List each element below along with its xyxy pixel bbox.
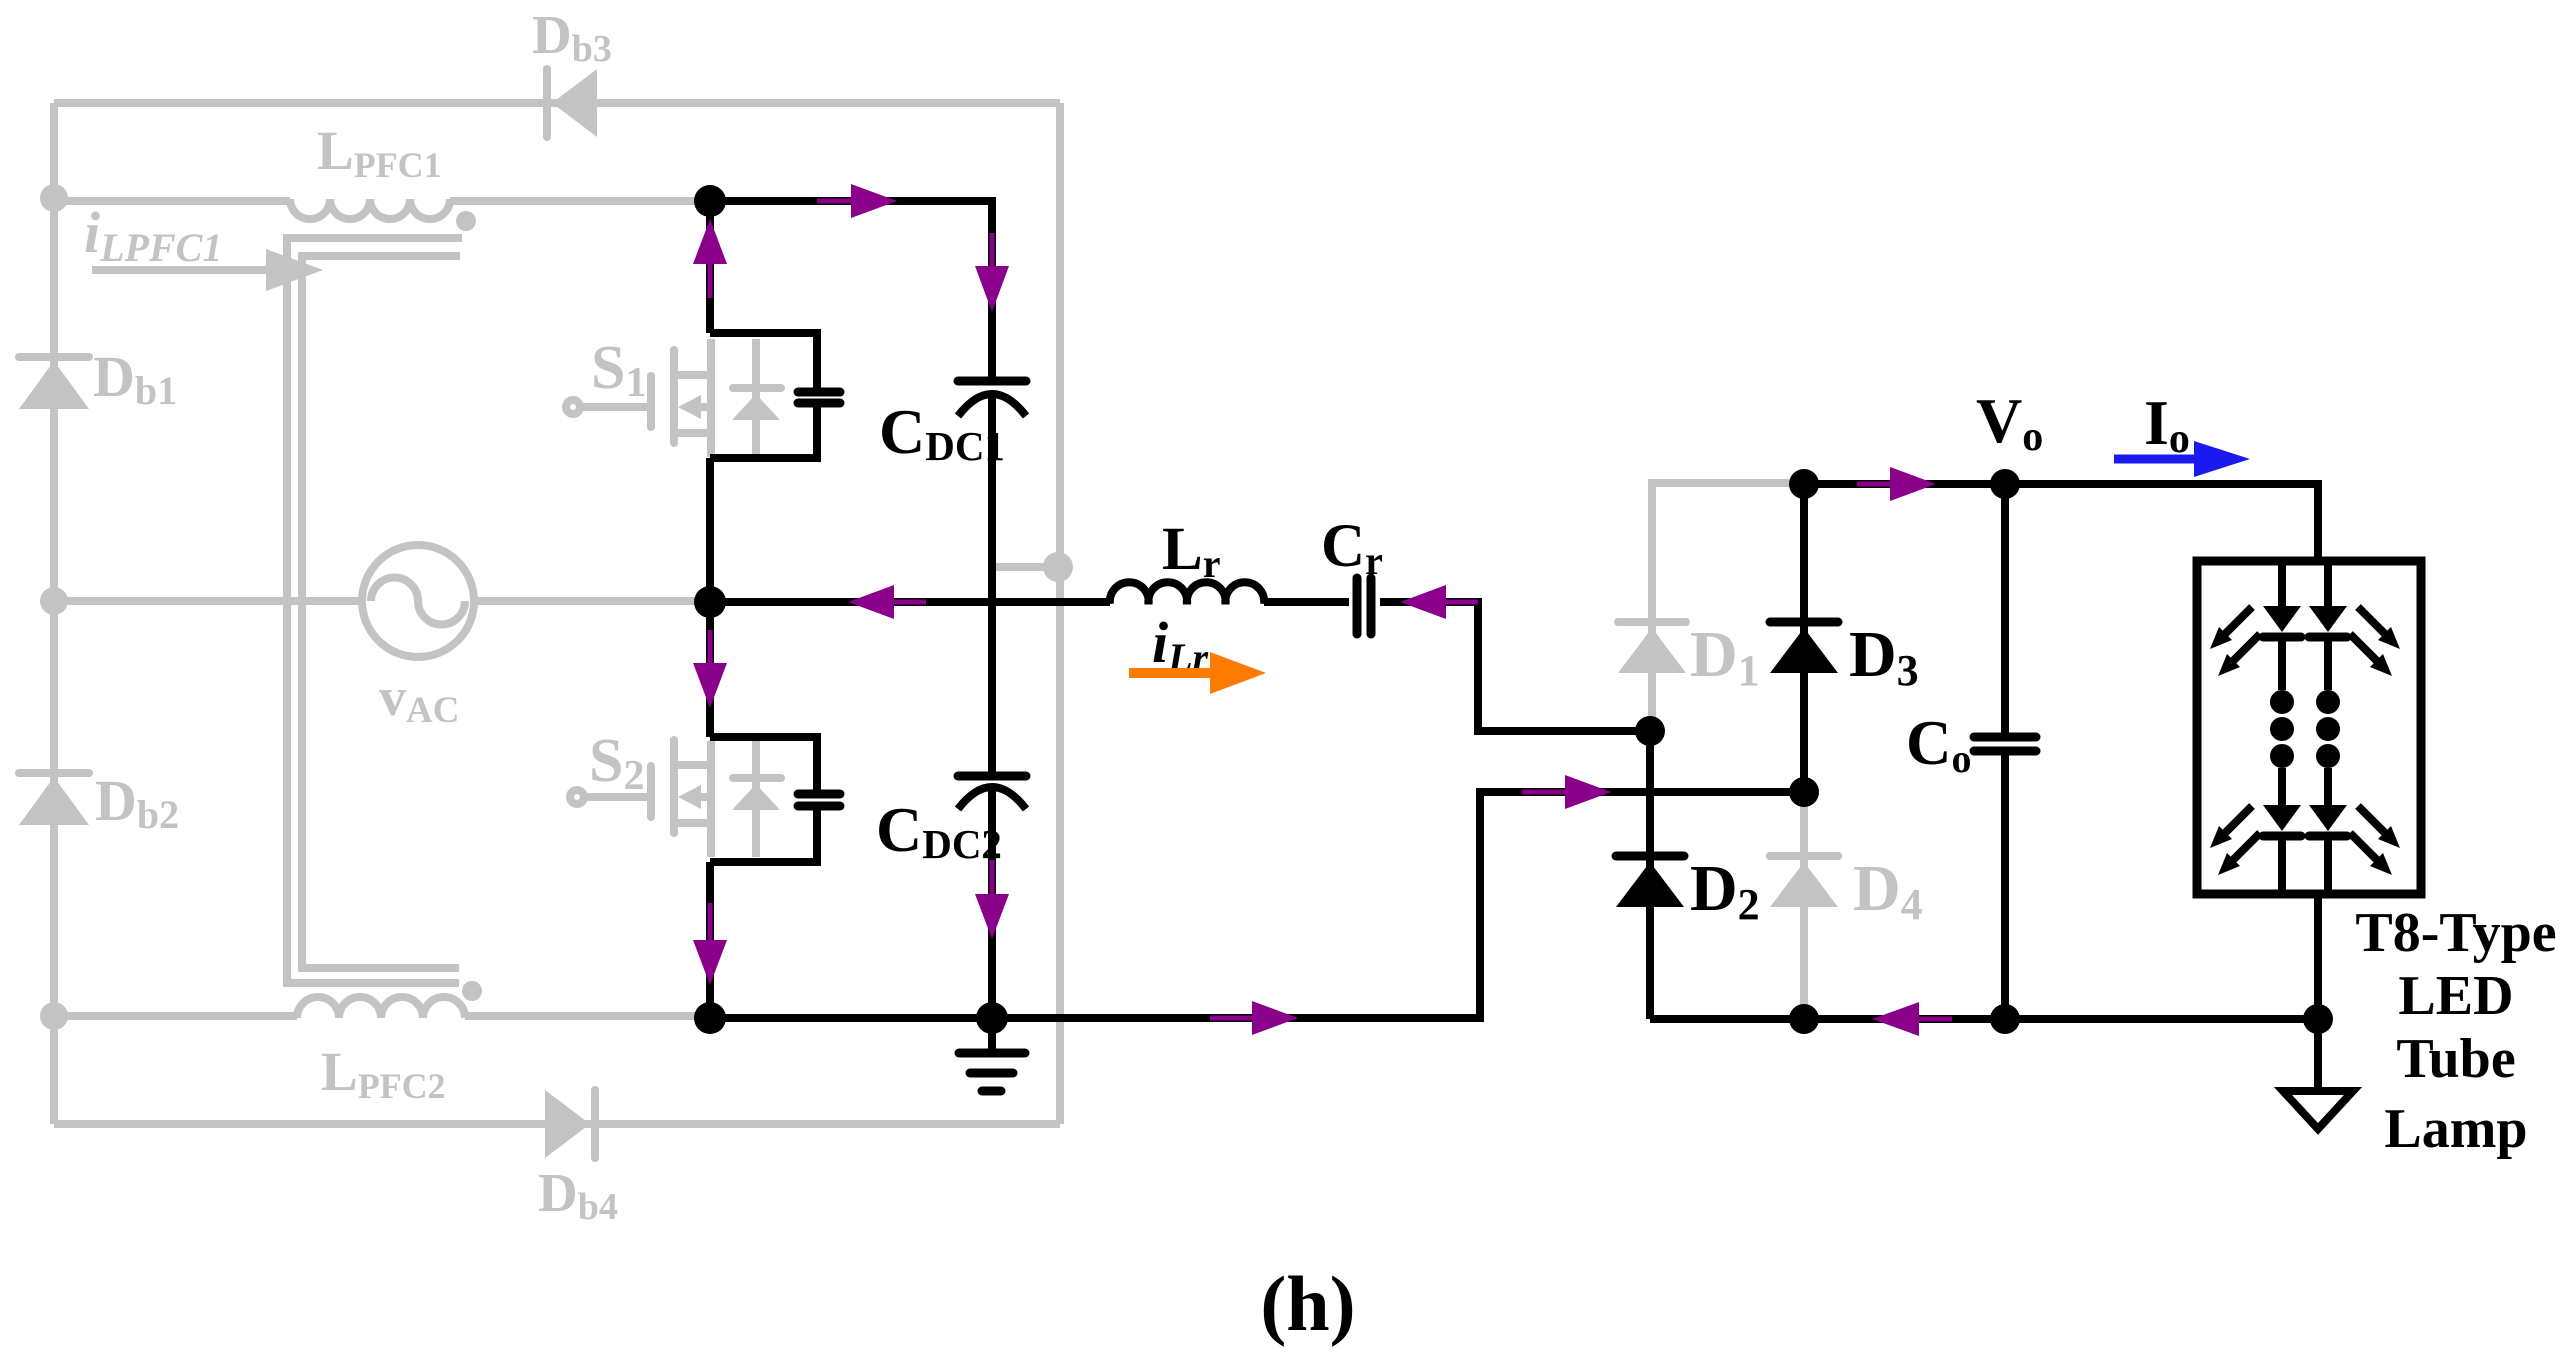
diode D4 (gray) — [1770, 856, 1838, 907]
wire black Lr to Cr — [1264, 598, 1349, 606]
LED lamp box — [2197, 561, 2421, 894]
junction node B (return to D3 D4) — [1789, 777, 1819, 807]
wire black D2 branch — [1646, 731, 1654, 1019]
wire black Cr to rectifier node A — [1380, 602, 1650, 731]
current arrow purple output top right — [1857, 467, 1936, 501]
capacitor Co — [1974, 737, 2036, 751]
wire gray stub to DC bus — [996, 563, 1060, 571]
junction gray dot on DC bus stub — [1043, 552, 1073, 582]
junction gray dot top left — [40, 184, 68, 212]
current arrow purple S1 up — [693, 219, 727, 298]
inductor Lr — [1110, 582, 1264, 604]
svg-text:Tube: Tube — [2396, 1028, 2515, 1090]
svg-text:T8-Type: T8-Type — [2355, 902, 2556, 964]
LED DR2 — [2309, 805, 2347, 836]
arrow iLr (orange right) — [1129, 652, 1266, 694]
junction node half-bridge mid — [694, 586, 726, 618]
capacitor Cr — [1357, 578, 1371, 634]
diode D2 — [1616, 856, 1684, 907]
LED DL1 — [2263, 606, 2301, 637]
arrow iLPFC1 (gray right) — [92, 249, 323, 291]
wire black Co branch top — [2001, 484, 2009, 733]
svg-text:LED: LED — [2398, 965, 2513, 1027]
wire black to earth ground — [2314, 1019, 2322, 1091]
current arrow purple CDC2 down — [975, 860, 1009, 939]
wire gray middle row left of source — [54, 597, 363, 605]
wire black top rail to CDC1 — [710, 201, 992, 385]
junction node lamp return — [2303, 1004, 2333, 1034]
diode Db1 — [19, 357, 89, 409]
current arrow purple mid rail left — [848, 585, 926, 619]
wire black return rail up to node B — [992, 792, 1804, 1018]
current arrow purple Cr left — [1400, 585, 1478, 619]
current arrow purple S2 lower down — [693, 903, 727, 985]
LED string right mid wire and dots — [2316, 641, 2340, 805]
ground symbol (signal ground) — [959, 1018, 1025, 1091]
label T8-Type LED Tube Lamp — [2355, 902, 2556, 1160]
LED DL2 emission arrows — [2210, 806, 2260, 875]
wire black lamp return lead — [2314, 894, 2322, 1019]
wire black output top rail — [1804, 484, 2318, 561]
LED DL1 emission arrows — [2210, 607, 2260, 676]
arrow Io (blue right) — [2114, 441, 2250, 477]
wire gray bottom rail — [54, 1120, 1060, 1128]
wire black S1 source to mid node — [706, 458, 714, 602]
svg-text:(h): (h) — [1260, 1260, 1355, 1347]
transistor S1 (MOSFET, gray) — [566, 339, 711, 457]
coupled winding bracket inner — [302, 256, 460, 968]
wire black D3 branch — [1800, 483, 1808, 792]
wire gray middle row right of source — [473, 597, 706, 605]
junction node bottom of half-bridge — [694, 1002, 726, 1034]
current arrow purple output bottom left — [1872, 1002, 1952, 1036]
wire from LPFC2 to bottom node — [465, 1012, 706, 1020]
wire gray D4 branch — [1800, 792, 1808, 1015]
LED string right wire bottom — [2324, 840, 2332, 892]
wire black S1 drain drop — [706, 201, 714, 333]
wire black DC bus CDC1 to CDC2 — [988, 396, 996, 772]
transistor S2 (MOSFET, gray) — [570, 740, 711, 857]
wire black output bottom rail — [1650, 1015, 2318, 1023]
wire black S2 snubber jog — [710, 737, 817, 790]
LED string left mid wire and dots — [2270, 641, 2294, 805]
junction node D4 bottom — [1789, 1004, 1819, 1034]
wire black S2 source to bottom node — [706, 862, 714, 1018]
body diode of S2 (gray) — [732, 741, 781, 857]
junction node D3 top — [1789, 469, 1819, 499]
inductor LPFC1 — [290, 199, 450, 219]
current arrow purple top rail right — [817, 184, 897, 218]
LED DR1 — [2309, 606, 2347, 637]
wire gray right rail of bridge box — [1056, 103, 1064, 1124]
current arrow purple S2 upper down — [693, 630, 727, 708]
diode Db2 — [19, 773, 89, 825]
current arrow purple return rail right — [1522, 775, 1611, 809]
body diode of S1 (gray) — [732, 339, 781, 457]
wire black S1 snubber return — [710, 407, 817, 458]
diode Db3 — [547, 69, 597, 137]
junction node ground — [976, 1002, 1008, 1034]
polarity dot LPFC2 — [462, 981, 482, 1001]
ground symbol (earth triangle) — [2283, 1091, 2353, 1129]
junction node A (Cr to D1 D2) — [1635, 716, 1665, 746]
LED string right wire top — [2324, 563, 2332, 606]
wire black CDC2 to ground node — [988, 790, 996, 1018]
capacitor CDC1 (polarized) — [958, 381, 1026, 416]
diode D3 — [1770, 622, 1838, 673]
diode D1 (gray) — [1618, 622, 1686, 673]
wire black middle row (resonant feed) — [710, 598, 1110, 606]
wire gray lower row with LPFC2 — [54, 1012, 297, 1020]
junction gray dot bottom left — [40, 1002, 68, 1030]
svg-text:Lamp: Lamp — [2384, 1098, 2527, 1160]
wire black S2 snubber return — [710, 810, 817, 862]
capacitor CDC2 (polarized) — [958, 776, 1026, 809]
junction node Vo — [1990, 469, 2020, 499]
capacitor snubber of S1 — [798, 392, 840, 403]
LED DR1 emission arrows — [2350, 607, 2400, 676]
ac source vAC — [362, 545, 474, 657]
wire gray upper row with LPFC1 — [54, 197, 290, 205]
polarity dot LPFC1 — [456, 211, 476, 231]
wire gray left rail — [50, 103, 58, 1124]
diode Db4 — [545, 1090, 595, 1158]
wire gray top rail — [54, 99, 1060, 107]
junction node Co bottom — [1990, 1004, 2020, 1034]
wire black S1 snubber jog — [710, 333, 817, 388]
wire black bottom left rail — [710, 1014, 1480, 1022]
LED string left wire bottom — [2278, 840, 2286, 892]
wire from LPFC1 to half-bridge node — [450, 197, 706, 205]
LED DL2 — [2263, 805, 2301, 836]
capacitor snubber of S2 — [798, 794, 840, 806]
junction node half-bridge top — [694, 185, 726, 217]
wire gray D1 branch — [1652, 483, 1800, 727]
wire black S2 drain drop — [706, 602, 714, 737]
inductor LPFC2 — [297, 997, 465, 1018]
current arrow purple CDC1 down — [975, 233, 1009, 312]
LED string left wire top — [2278, 563, 2286, 606]
junction gray dot middle left — [40, 587, 68, 615]
coupled winding bracket outer — [287, 238, 462, 983]
wire black Co branch bottom — [2001, 755, 2009, 1019]
LED DR2 emission arrows — [2350, 806, 2400, 875]
current arrow purple bottom rail right — [1210, 1001, 1298, 1035]
